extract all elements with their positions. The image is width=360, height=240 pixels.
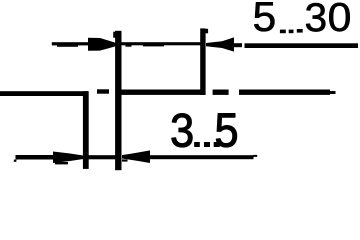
right edge line long segment bbox=[239, 90, 330, 95]
small tail at end of edge line bbox=[329, 91, 336, 94]
left plate top edge bbox=[0, 91, 88, 96]
lower dimension line right tail / shelf under 3...5 bbox=[150, 155, 254, 159]
nub on central vertical top bbox=[113, 32, 116, 38]
lower right arrowhead bbox=[122, 150, 150, 163]
thin tail at end of lower shelf bbox=[253, 155, 257, 157]
right extension line (vertical) bbox=[200, 28, 205, 95]
shelf line under 5...30 bbox=[245, 43, 359, 48]
ellipsis dots bbox=[280, 30, 286, 34]
digit 3 bbox=[306, 3, 325, 32]
digit 0 bbox=[329, 3, 350, 32]
upper dimension line left tail bbox=[52, 42, 89, 45]
dimension text 5...30 bbox=[254, 2, 350, 33]
wobble under left tail bbox=[57, 45, 78, 47]
nub at top of right extension line bbox=[206, 29, 209, 34]
lower dimension line middle segment bbox=[88, 155, 116, 159]
step under lower left arrowhead bbox=[55, 162, 68, 164]
lower dimension line start dot bbox=[14, 160, 17, 162]
nub under lower right arrowhead tip bbox=[122, 159, 128, 161]
lower dimension line left tail bbox=[16, 155, 54, 160]
right plate top edge bbox=[121, 90, 203, 95]
lower left arrowhead bbox=[53, 152, 84, 164]
short dash in gap bbox=[97, 89, 109, 93]
digit 5 bbox=[216, 114, 236, 147]
upper dimension line middle segment bbox=[116, 42, 202, 45]
upper dimension line tail right of arrow bbox=[234, 43, 242, 47]
dimension text 3...5 bbox=[172, 114, 237, 148]
left plate end edge (vertical) bbox=[83, 91, 89, 169]
digit 3 bbox=[172, 114, 192, 147]
dash of broken edge line bbox=[213, 90, 229, 95]
ellipsis dots bbox=[194, 142, 200, 147]
nub under middle segment near centre line bbox=[126, 45, 132, 47]
digit 5 bbox=[254, 2, 274, 31]
upper left arrowhead bbox=[88, 38, 116, 51]
central vertical edge line bbox=[115, 31, 121, 170]
upper right arrowhead bbox=[206, 37, 234, 51]
thick wobble on middle segment bbox=[143, 44, 164, 47]
